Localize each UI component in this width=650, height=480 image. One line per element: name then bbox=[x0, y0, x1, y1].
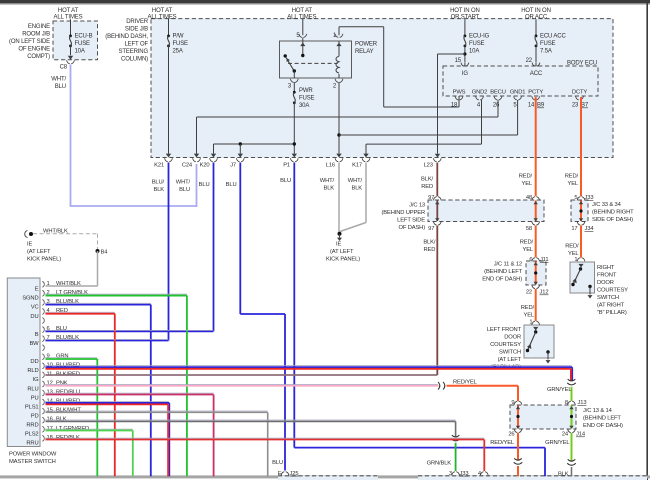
svg-text:SIDE J/B: SIDE J/B bbox=[125, 27, 148, 33]
svg-text:PLS1: PLS1 bbox=[25, 404, 39, 410]
svg-text:END OF DASH): END OF DASH) bbox=[583, 423, 623, 429]
svg-text:1: 1 bbox=[574, 257, 577, 263]
svg-text:J7: J7 bbox=[230, 162, 236, 168]
svg-text:“B” PILLAR): “B” PILLAR) bbox=[597, 310, 627, 316]
svg-text:ECU ACC: ECU ACC bbox=[540, 34, 566, 40]
svg-text:FRONT: FRONT bbox=[597, 272, 617, 278]
svg-text:RLD: RLD bbox=[27, 368, 38, 374]
svg-text:7.5A: 7.5A bbox=[540, 49, 552, 55]
svg-text:J/C 33 & 34: J/C 33 & 34 bbox=[592, 202, 622, 208]
svg-text:HOT AT: HOT AT bbox=[58, 8, 79, 14]
svg-text:23: 23 bbox=[572, 103, 579, 109]
svg-text:KICK PANEL): KICK PANEL) bbox=[326, 257, 360, 263]
svg-text:RRD: RRD bbox=[26, 423, 38, 429]
svg-text:K20: K20 bbox=[200, 162, 210, 168]
svg-text:ACC: ACC bbox=[530, 71, 543, 77]
svg-text:RED/: RED/ bbox=[565, 174, 579, 180]
svg-text:OR START: OR START bbox=[451, 14, 480, 20]
svg-text:BLU: BLU bbox=[280, 178, 291, 184]
svg-text:FUSE: FUSE bbox=[469, 41, 485, 47]
svg-text:RIGHT: RIGHT bbox=[597, 265, 615, 271]
svg-text:RED: RED bbox=[421, 184, 433, 190]
svg-text:YEL: YEL bbox=[523, 313, 534, 319]
svg-text:(AT LEFT: (AT LEFT bbox=[498, 357, 522, 363]
svg-text:HOT IN ON: HOT IN ON bbox=[450, 8, 480, 14]
svg-text:YEL: YEL bbox=[521, 181, 532, 187]
svg-text:BLK: BLK bbox=[351, 186, 362, 192]
svg-text:WHT/: WHT/ bbox=[348, 178, 363, 184]
svg-text:OF DASH): OF DASH) bbox=[399, 225, 426, 231]
svg-text:WHT/: WHT/ bbox=[176, 180, 191, 186]
svg-text:ECU-IG: ECU-IG bbox=[469, 34, 490, 40]
svg-text:ROOM J/B: ROOM J/B bbox=[22, 32, 50, 38]
svg-text:BW: BW bbox=[29, 341, 39, 347]
svg-text:RED/: RED/ bbox=[520, 240, 534, 246]
svg-text:END OF DASH): END OF DASH) bbox=[482, 277, 522, 283]
svg-text:P1: P1 bbox=[283, 162, 290, 168]
svg-text:GRN/YEL: GRN/YEL bbox=[547, 387, 572, 393]
svg-text:7: 7 bbox=[47, 335, 50, 341]
svg-text:(BEHIND RIGHT: (BEHIND RIGHT bbox=[592, 210, 634, 216]
svg-text:J12: J12 bbox=[540, 290, 549, 296]
svg-text:YEL: YEL bbox=[567, 181, 578, 187]
svg-text:48: 48 bbox=[526, 195, 532, 201]
svg-text:DOOR: DOOR bbox=[504, 335, 521, 341]
svg-text:IG: IG bbox=[33, 377, 39, 383]
svg-text:RED/: RED/ bbox=[565, 244, 579, 250]
svg-text:(BEHIND DASH,: (BEHIND DASH, bbox=[105, 34, 148, 40]
svg-text:DOOR: DOOR bbox=[597, 280, 614, 286]
svg-text:BLK: BLK bbox=[323, 186, 334, 192]
svg-text:BLU: BLU bbox=[199, 182, 210, 188]
svg-text:DU: DU bbox=[30, 314, 38, 320]
svg-text:15: 15 bbox=[455, 58, 462, 64]
svg-text:B7: B7 bbox=[581, 103, 589, 109]
svg-text:OF ENGINE: OF ENGINE bbox=[18, 47, 50, 53]
svg-text:K17: K17 bbox=[352, 162, 362, 168]
svg-text:22: 22 bbox=[526, 58, 533, 64]
svg-text:SGND: SGND bbox=[22, 296, 38, 302]
svg-text:DRIVER: DRIVER bbox=[126, 19, 149, 25]
svg-text:GND2: GND2 bbox=[472, 90, 488, 96]
svg-text:MASTER SWITCH: MASTER SWITCH bbox=[9, 459, 56, 465]
svg-text:ENGINE: ENGINE bbox=[28, 24, 50, 30]
svg-text:(BEHIND LEFT: (BEHIND LEFT bbox=[583, 416, 621, 422]
svg-text:WHT/BLK: WHT/BLK bbox=[43, 228, 68, 234]
svg-text:LEFT SIDE: LEFT SIDE bbox=[397, 218, 425, 224]
svg-text:J/C 13 & 14: J/C 13 & 14 bbox=[583, 408, 613, 414]
svg-text:KICK PANEL): KICK PANEL) bbox=[27, 257, 61, 263]
svg-text:RED: RED bbox=[424, 247, 436, 253]
svg-text:WHT/: WHT/ bbox=[320, 178, 335, 184]
svg-text:22: 22 bbox=[526, 290, 532, 296]
svg-text:RRU: RRU bbox=[26, 441, 38, 447]
svg-text:B4: B4 bbox=[101, 250, 109, 256]
svg-text:E: E bbox=[35, 287, 39, 293]
svg-text:BLU: BLU bbox=[56, 326, 67, 332]
svg-text:J11: J11 bbox=[540, 257, 548, 263]
svg-text:HOT AT: HOT AT bbox=[292, 8, 313, 14]
svg-text:COURTESY: COURTESY bbox=[597, 287, 628, 293]
svg-text:B9: B9 bbox=[537, 103, 545, 109]
svg-text:17: 17 bbox=[571, 226, 577, 232]
svg-text:SWITCH: SWITCH bbox=[499, 350, 521, 356]
svg-text:PLS2: PLS2 bbox=[25, 432, 39, 438]
svg-text:(ON LEFT SIDE: (ON LEFT SIDE bbox=[9, 39, 50, 45]
svg-text:11: 11 bbox=[47, 371, 53, 377]
svg-text:26: 26 bbox=[508, 432, 514, 438]
svg-text:ALL TIMES: ALL TIMES bbox=[287, 14, 316, 20]
svg-text:1: 1 bbox=[529, 320, 532, 326]
svg-text:10A: 10A bbox=[75, 49, 85, 55]
svg-text:RLU: RLU bbox=[27, 386, 38, 392]
svg-text:POWER WINDOW: POWER WINDOW bbox=[9, 452, 57, 458]
svg-text:6: 6 bbox=[47, 326, 50, 332]
svg-text:OR ACC: OR ACC bbox=[525, 14, 548, 20]
svg-text:YEL: YEL bbox=[522, 247, 533, 253]
svg-text:IE: IE bbox=[336, 242, 341, 248]
svg-text:HOT IN ON: HOT IN ON bbox=[521, 8, 551, 14]
svg-text:RED/YEL: RED/YEL bbox=[490, 440, 515, 446]
svg-text:C8: C8 bbox=[60, 65, 68, 71]
svg-text:SWITCH: SWITCH bbox=[597, 295, 619, 301]
svg-text:IG: IG bbox=[462, 71, 469, 77]
svg-text:RED/: RED/ bbox=[521, 305, 535, 311]
svg-text:BODY ECU: BODY ECU bbox=[567, 61, 597, 67]
svg-text:ECU-B: ECU-B bbox=[75, 34, 93, 40]
svg-text:BLU/BLK: BLU/BLK bbox=[56, 335, 79, 341]
svg-text:GND1: GND1 bbox=[510, 90, 526, 96]
svg-text:(AT RIGHT: (AT RIGHT bbox=[597, 302, 625, 308]
svg-text:(AT LEFT: (AT LEFT bbox=[330, 249, 354, 255]
svg-text:PCTY: PCTY bbox=[528, 90, 543, 96]
svg-text:FUSE: FUSE bbox=[540, 41, 556, 47]
svg-text:8: 8 bbox=[565, 400, 568, 406]
svg-text:C24: C24 bbox=[182, 162, 193, 168]
svg-text:BLU/: BLU/ bbox=[152, 180, 165, 186]
svg-text:9: 9 bbox=[511, 400, 514, 406]
svg-text:FUSE: FUSE bbox=[299, 96, 315, 102]
svg-text:1: 1 bbox=[47, 281, 50, 287]
svg-text:BLU: BLU bbox=[272, 460, 283, 466]
svg-text:J25: J25 bbox=[290, 471, 299, 477]
svg-text:14: 14 bbox=[528, 103, 535, 109]
svg-text:18: 18 bbox=[451, 103, 458, 109]
svg-text:BLU: BLU bbox=[179, 187, 190, 193]
svg-text:BLU: BLU bbox=[55, 84, 66, 90]
svg-text:ALL TIMES: ALL TIMES bbox=[54, 14, 83, 20]
svg-text:6: 6 bbox=[529, 257, 532, 263]
svg-text:J33: J33 bbox=[585, 195, 594, 201]
svg-text:BLK/RED: BLK/RED bbox=[56, 371, 80, 377]
svg-text:POWER: POWER bbox=[355, 42, 378, 48]
svg-text:J33: J33 bbox=[460, 471, 469, 477]
svg-text:BLU: BLU bbox=[226, 182, 237, 188]
svg-text:PWR: PWR bbox=[299, 88, 313, 94]
svg-text:COURTESY: COURTESY bbox=[490, 342, 521, 348]
svg-text:30A: 30A bbox=[299, 103, 309, 109]
svg-text:FUSE: FUSE bbox=[75, 41, 91, 47]
svg-text:25A: 25A bbox=[173, 49, 183, 55]
svg-text:PU: PU bbox=[31, 395, 39, 401]
svg-text:J34: J34 bbox=[585, 226, 595, 232]
svg-text:RED/YEL: RED/YEL bbox=[453, 380, 478, 386]
svg-text:HOT AT: HOT AT bbox=[152, 8, 173, 14]
svg-text:3: 3 bbox=[449, 471, 452, 477]
svg-text:PD: PD bbox=[31, 413, 39, 419]
svg-text:FUSE: FUSE bbox=[173, 41, 189, 47]
svg-text:B: B bbox=[35, 332, 39, 338]
svg-text:BLK/: BLK/ bbox=[421, 177, 434, 183]
svg-text:DCTY: DCTY bbox=[572, 90, 587, 96]
svg-text:J13: J13 bbox=[578, 400, 587, 406]
svg-text:GRN/YEL: GRN/YEL bbox=[545, 440, 570, 446]
svg-text:STEERING: STEERING bbox=[119, 49, 149, 55]
svg-text:COMPT): COMPT) bbox=[27, 54, 50, 60]
svg-text:BLK: BLK bbox=[153, 187, 164, 193]
svg-text:J/C 11 & 12: J/C 11 & 12 bbox=[494, 262, 522, 268]
svg-text:DD: DD bbox=[30, 359, 38, 365]
svg-text:(BEHIND UPPER: (BEHIND UPPER bbox=[382, 210, 425, 216]
svg-text:ALL TIMES: ALL TIMES bbox=[148, 14, 177, 20]
svg-text:WHT/: WHT/ bbox=[51, 77, 66, 83]
svg-text:BECU: BECU bbox=[490, 90, 506, 96]
svg-text:58: 58 bbox=[526, 226, 532, 232]
svg-text:97: 97 bbox=[428, 226, 434, 232]
svg-text:J/C 13: J/C 13 bbox=[409, 203, 425, 209]
svg-text:L23: L23 bbox=[424, 162, 433, 168]
svg-text:24: 24 bbox=[562, 432, 569, 438]
svg-text:BLK/: BLK/ bbox=[423, 240, 436, 246]
svg-text:(BEHIND LEFT: (BEHIND LEFT bbox=[484, 269, 522, 275]
svg-text:WHT/BLK: WHT/BLK bbox=[56, 281, 81, 287]
svg-text:RED/: RED/ bbox=[519, 174, 533, 180]
svg-text:97: 97 bbox=[428, 195, 434, 201]
svg-text:SIDE OF DASH): SIDE OF DASH) bbox=[592, 217, 633, 223]
svg-text:L16: L16 bbox=[326, 162, 335, 168]
svg-text:IE: IE bbox=[27, 242, 32, 248]
svg-text:26: 26 bbox=[493, 103, 500, 109]
svg-text:LEFT OF: LEFT OF bbox=[124, 42, 148, 48]
svg-text:K21: K21 bbox=[154, 162, 164, 168]
svg-text:P/W: P/W bbox=[173, 34, 184, 40]
svg-text:LEFT FRONT: LEFT FRONT bbox=[487, 327, 522, 333]
svg-text:VC: VC bbox=[31, 305, 39, 311]
svg-text:5: 5 bbox=[574, 195, 577, 201]
svg-text:RELAY: RELAY bbox=[355, 49, 374, 55]
svg-text:COLUMN): COLUMN) bbox=[121, 57, 148, 63]
svg-text:(AT LEFT: (AT LEFT bbox=[27, 249, 51, 255]
svg-text:10A: 10A bbox=[469, 49, 479, 55]
svg-text:BLK: BLK bbox=[558, 472, 569, 478]
svg-text:J14: J14 bbox=[576, 432, 586, 438]
svg-text:GRN/BLK: GRN/BLK bbox=[427, 460, 452, 466]
svg-text:E: E bbox=[278, 471, 282, 477]
svg-text:PWS: PWS bbox=[453, 90, 466, 96]
